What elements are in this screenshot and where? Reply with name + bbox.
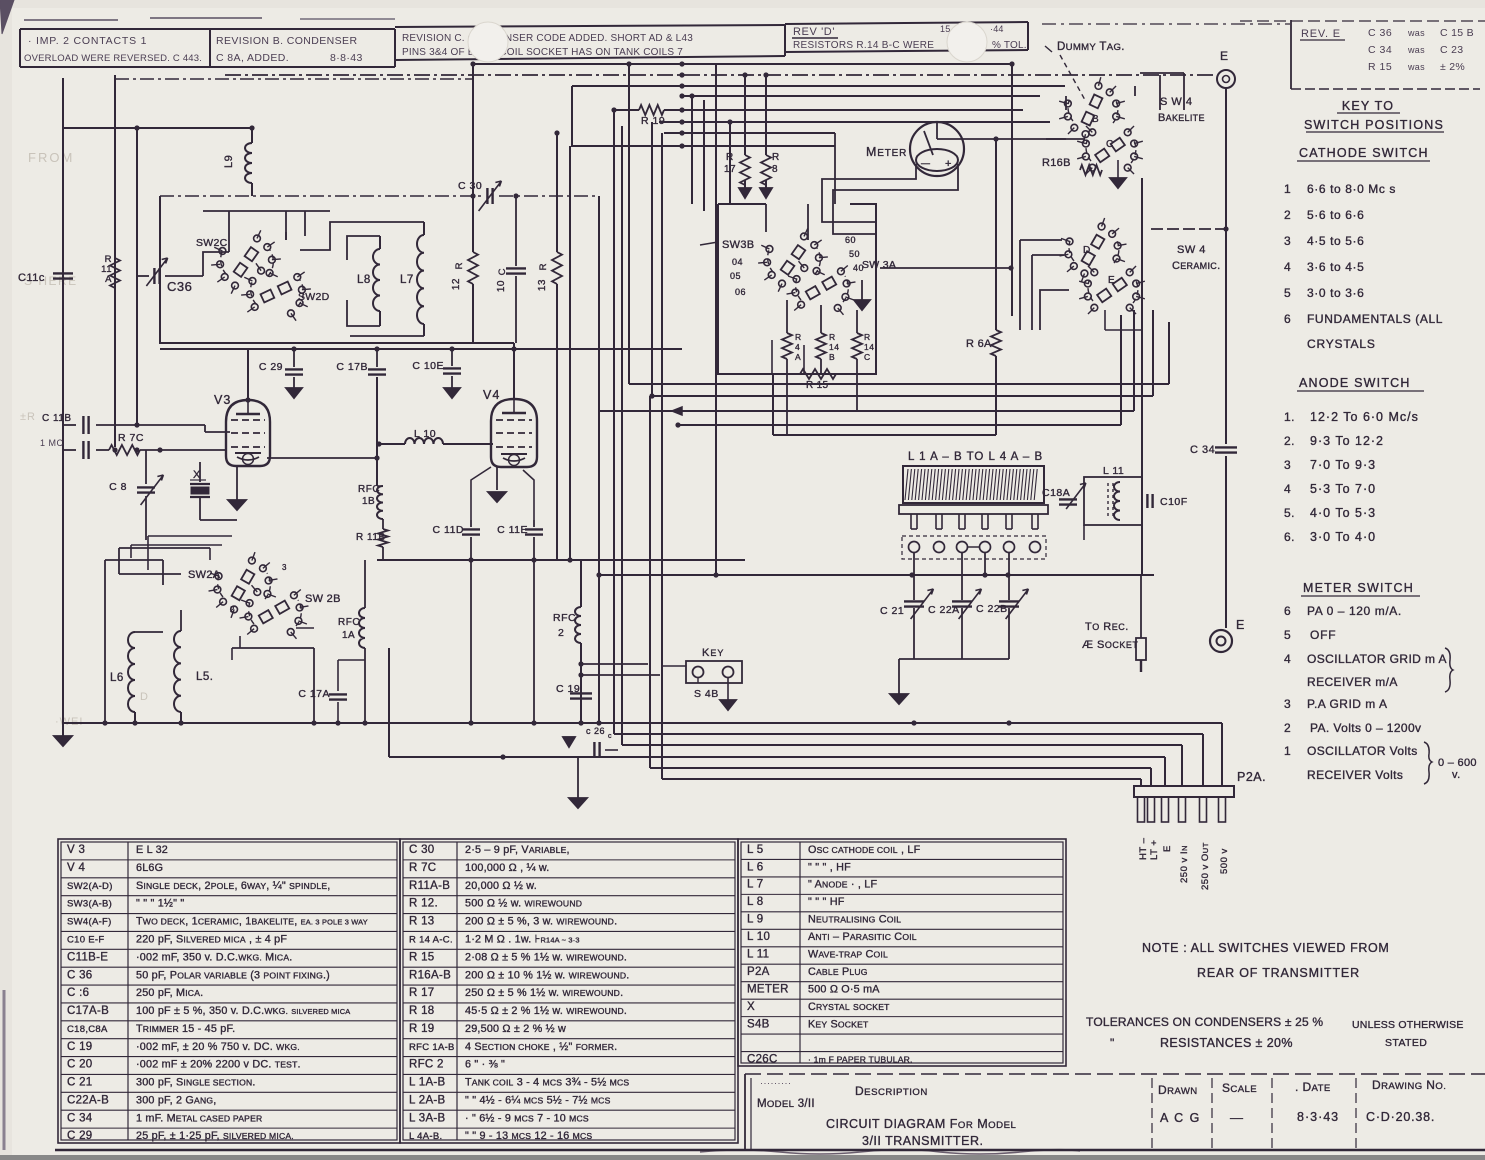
wire: SW4 lower taps xyxy=(1151,228,1226,230)
svg-text:NOTE : ALL SWITCHES VIEWED: NOTE : ALL SWITCHES VIEWED FROM xyxy=(1142,941,1389,955)
svg-text:3/II TRANSMITTER.: 3/II TRANSMITTER. xyxy=(862,1134,983,1148)
SW2A/B nest wires xyxy=(105,548,210,723)
svg-text:—: — xyxy=(921,158,931,168)
wire: vertical x115 xyxy=(114,75,116,447)
capacitor C18A xyxy=(1059,498,1077,500)
svg-text:D: D xyxy=(1083,245,1091,256)
svg-text:100 pF ± 5 %, 350 v. D.C.WKG.: 100 pF ± 5 %, 350 v. D.C.WKG. SILVERED M… xyxy=(136,1005,350,1017)
svg-text:UNLESS OTHERWISE: UNLESS OTHERWISE xyxy=(1352,1019,1464,1031)
top edge dashes xyxy=(24,19,118,21)
wire: middle bundle y384 xyxy=(629,383,1169,385)
svg-text:300 pF, SINGLE SECTION.: 300 pF, SINGLE SECTION. xyxy=(136,1077,256,1089)
svg-text:L 10: L 10 xyxy=(747,931,770,943)
svg-text:L9: L9 xyxy=(223,155,235,168)
svg-text:R: R xyxy=(864,332,871,342)
svg-text:BAKELITE: BAKELITE xyxy=(1158,112,1205,124)
svg-text:C 15 B: C 15 B xyxy=(1440,27,1474,39)
svg-text:REVISION B. CONDENSER: REVISION B. CONDENSER xyxy=(216,35,357,47)
wire: left vertical x63 with ground xyxy=(62,78,64,723)
wire: comb y779 xyxy=(662,778,1141,780)
capacitor C19 xyxy=(570,692,592,694)
svg-text:C 23: C 23 xyxy=(1440,44,1463,56)
svg-text:MODEL 3/II: MODEL 3/II xyxy=(757,1098,815,1110)
svg-text:DUMMY TAG.: DUMMY TAG. xyxy=(1057,41,1125,53)
svg-text:KEY: KEY xyxy=(702,647,724,659)
svg-text:" " ": " " " , HF xyxy=(808,861,851,873)
svg-text:29,500 Ω ± 2 % ½ w: 29,500 Ω ± 2 % ½ w xyxy=(465,1023,566,1035)
svg-text:OSCILLATOR Volts: OSCILLATOR Volts xyxy=(1307,744,1418,758)
svg-text:X: X xyxy=(747,1001,755,1013)
svg-text:R: R xyxy=(454,262,465,269)
capacitor C8 variable xyxy=(145,450,147,484)
svg-text:1 MC: 1 MC xyxy=(40,438,64,448)
rev E box xyxy=(1290,20,1292,89)
svg-text:A: A xyxy=(795,352,801,362)
wire: meter to SW3 left xyxy=(822,164,916,222)
coil L7 xyxy=(417,235,424,324)
svg-text:± 2%: ± 2% xyxy=(1440,61,1465,73)
svg-text:4·5 to 5·6: 4·5 to 5·6 xyxy=(1307,234,1364,248)
svg-text:OSC CATHODE COIL , LF: OSC CATHODE COIL , LF xyxy=(808,844,921,856)
svg-text:SCALE: SCALE xyxy=(1222,1081,1257,1095)
resistor R6A xyxy=(995,139,997,330)
svg-text:SW 3A: SW 3A xyxy=(862,259,896,271)
svg-text:RFC: RFC xyxy=(358,484,380,495)
svg-text:6: 6 xyxy=(1284,604,1291,618)
variable capacitor C21 xyxy=(904,600,924,602)
svg-text:C18,C8A: C18,C8A xyxy=(67,1024,108,1035)
svg-text:was: was xyxy=(1407,28,1425,38)
svg-text:R 19: R 19 xyxy=(641,115,665,127)
svg-text:R: R xyxy=(772,152,780,163)
svg-text:4: 4 xyxy=(1284,260,1291,274)
svg-text:· IMP. 2 CONTACTS 1: · IMP. 2 CONTACTS 1 xyxy=(28,35,147,47)
wire: meter to SW3 right xyxy=(833,164,958,234)
svg-text:REV. E: REV. E xyxy=(1301,28,1341,40)
svg-text:R 12.: R 12. xyxy=(409,898,438,910)
svg-text:5.: 5. xyxy=(1284,506,1295,520)
svg-text:R16B: R16B xyxy=(1042,157,1071,169)
svg-text:R16A-B: R16A-B xyxy=(409,969,451,981)
svg-text:R 19: R 19 xyxy=(409,1023,435,1035)
svg-text:REVISION C. CONDENSER CODE AD: REVISION C. CONDENSER CODE ADDED. SHORT … xyxy=(402,33,693,44)
svg-text:5: 5 xyxy=(1284,286,1291,300)
svg-text:1 mF. METAL CASED PAPER: 1 mF. METAL CASED PAPER xyxy=(136,1112,262,1124)
svg-text:CABLE PLUG: CABLE PLUG xyxy=(808,966,868,978)
svg-text:L 1A-B: L 1A-B xyxy=(409,1077,446,1089)
svg-text:R 11B: R 11B xyxy=(356,532,386,543)
svg-text:C 19: C 19 xyxy=(556,683,580,695)
svg-text:C 11B: C 11B xyxy=(42,413,72,424)
svg-text:ANODE SWITCH: ANODE SWITCH xyxy=(1299,376,1411,390)
wire: comb y757 xyxy=(389,756,1165,758)
svg-text:C 21: C 21 xyxy=(880,605,904,617)
svg-text:C 30: C 30 xyxy=(409,844,435,856)
svg-text:V4: V4 xyxy=(483,388,500,402)
capacitor C10 xyxy=(515,196,517,266)
wire: key to cage xyxy=(662,665,686,667)
svg-text:" " ": " " " 1½" " xyxy=(136,898,184,910)
svg-text:1B: 1B xyxy=(362,496,375,507)
wire: V4 anode top xyxy=(513,343,515,399)
svg-text:—: — xyxy=(1230,1110,1244,1125)
svg-text:6: 6 xyxy=(1284,312,1291,326)
svg-text:RFC: RFC xyxy=(338,617,360,628)
svg-text:7·0 To 9·3: 7·0 To 9·3 xyxy=(1310,458,1376,472)
svg-text:25 pF, ± 1·25 pF, SILVERED MIC: 25 pF, ± 1·25 pF, SILVERED MICA. xyxy=(136,1130,294,1142)
svg-text:·002 mF, 350 v. D.C.WKG. MICA: ·002 mF, 350 v. D.C.WKG. MICA. xyxy=(136,951,292,963)
svg-text:E: E xyxy=(1236,618,1245,632)
svg-text:C: C xyxy=(1106,139,1114,150)
svg-text:6.: 6. xyxy=(1284,530,1295,544)
svg-text:SW4(A-F): SW4(A-F) xyxy=(67,917,112,928)
svg-text:±R: ±R xyxy=(20,411,36,423)
svg-text:C 21: C 21 xyxy=(67,1077,93,1089)
svg-text:1A: 1A xyxy=(342,630,355,641)
svg-text:C :6: C :6 xyxy=(67,987,89,999)
svg-text:05: 05 xyxy=(730,271,741,281)
svg-text:C: C xyxy=(497,268,508,275)
svg-text:METER: METER xyxy=(747,984,789,996)
ground arrow below C26C xyxy=(577,757,579,798)
svg-text:B: B xyxy=(829,352,835,362)
capacitor C11C xyxy=(53,272,73,274)
svg-text:2: 2 xyxy=(1284,721,1291,735)
rotary switch SW4 lower (ceramic) xyxy=(1114,242,1121,249)
svg-text:0 – 600: 0 – 600 xyxy=(1438,757,1477,769)
vertical cage center xyxy=(571,86,573,146)
svg-text:SWITCH POSITIONS: SWITCH POSITIONS xyxy=(1304,118,1444,132)
svg-text:HT –: HT – xyxy=(1138,837,1149,860)
svg-text:C 8A, ADDED.: C 8A, ADDED. xyxy=(216,52,289,64)
svg-text:C 29: C 29 xyxy=(67,1130,93,1142)
wire: SW3A to SW4 y268 xyxy=(880,267,1011,269)
SW3 box xyxy=(718,204,876,374)
svg-text:3·0 to 3·6: 3·0 to 3·6 xyxy=(1307,286,1364,300)
ground under V3 cathode xyxy=(236,466,238,500)
svg-text:·44: ·44 xyxy=(990,24,1004,34)
svg-text:8·8·43: 8·8·43 xyxy=(330,52,363,64)
svg-text:CRYSTALS: CRYSTALS xyxy=(1307,337,1376,351)
wire: ground bus y723 xyxy=(63,722,1222,724)
wire: x1012 vertical xyxy=(1011,64,1013,316)
svg-text:DESCRIPTION: DESCRIPTION xyxy=(855,1084,928,1098)
svg-text:SW3(A-B): SW3(A-B) xyxy=(67,899,112,910)
svg-text:B: B xyxy=(1092,114,1099,125)
svg-text:C10 E-F: C10 E-F xyxy=(67,934,104,945)
svg-text:C·D·20.38.: C·D·20.38. xyxy=(1366,1110,1435,1124)
svg-text:REV 'D': REV 'D' xyxy=(793,26,835,38)
svg-text:REAR OF TRANSMITTER: REAR OF TRANSMITTER xyxy=(1197,966,1360,980)
svg-text:c 26: c 26 xyxy=(586,726,605,736)
svg-text:TO REC.: TO REC. xyxy=(1085,621,1129,633)
ground arrow left bottom xyxy=(62,723,64,736)
svg-text:250 Ω ± 5 % 1½ w. WIREWOUND.: 250 Ω ± 5 % 1½ w. WIREWOUND. xyxy=(465,987,623,999)
svg-text:R 6A: R 6A xyxy=(966,338,992,350)
meter M1 xyxy=(910,122,964,176)
svg-text:R: R xyxy=(795,332,802,342)
svg-text:Æ SOCKET: Æ SOCKET xyxy=(1082,639,1138,651)
svg-text:L 6: L 6 xyxy=(747,861,763,873)
capacitor C29 with ground xyxy=(293,349,295,367)
svg-text:L 11: L 11 xyxy=(747,949,769,961)
svg-text:KEY TO: KEY TO xyxy=(1342,99,1394,113)
svg-text:C 8: C 8 xyxy=(109,481,127,493)
svg-text:DRAWN: DRAWN xyxy=(1158,1083,1198,1097)
capacitor C11B xyxy=(63,424,76,426)
svg-text:L 1 A – B TO L 4 A – B: L 1 A – B TO L 4 A – B xyxy=(908,451,1043,463)
svg-text:3·0 To 4·0: 3·0 To 4·0 xyxy=(1310,530,1376,544)
svg-text:L 11: L 11 xyxy=(1103,465,1124,477)
svg-text:C11B-E: C11B-E xyxy=(67,951,108,963)
svg-text:RECEIVER Volts: RECEIVER Volts xyxy=(1307,768,1403,782)
svg-text:L 7: L 7 xyxy=(747,879,763,891)
svg-text:C17A-B: C17A-B xyxy=(67,1005,109,1017)
svg-text:LT +: LT + xyxy=(1149,840,1160,860)
wire: vertical x137 xyxy=(136,128,138,424)
svg-text:STATED: STATED xyxy=(1385,1037,1427,1049)
capacitor C7C lower xyxy=(63,449,76,451)
svg-text:NEUTRALISING COIL: NEUTRALISING COIL xyxy=(808,914,901,926)
svg-text:L8: L8 xyxy=(357,274,371,286)
rotary switch SW4 upper (bakelite) xyxy=(1113,100,1120,107)
svg-text:" ANODE · , LF: " ANODE · , LF xyxy=(808,879,877,891)
wire: y435 under SW3 xyxy=(773,434,996,436)
svg-text:SW2A: SW2A xyxy=(188,569,221,581)
resistor R14A xyxy=(786,300,788,333)
rotary switch SW3A/B xyxy=(816,254,823,261)
svg-text:CATHODE SWITCH: CATHODE SWITCH xyxy=(1299,146,1429,160)
resistor R11B xyxy=(382,519,384,529)
coil L8 xyxy=(373,249,380,311)
svg-text:A: A xyxy=(105,274,112,285)
svg-text:9·3 To 12·2: 9·3 To 12·2 xyxy=(1310,434,1384,448)
wire: middle bundle y411 xyxy=(598,410,1134,412)
svg-text:RFC 2: RFC 2 xyxy=(409,1059,444,1071)
svg-text:· " 6½ - 9 MCS 7 -: · " 6½ - 9 MCS 7 - 10 MCS xyxy=(465,1112,589,1124)
crystal socket holes xyxy=(902,536,1046,559)
svg-text:E: E xyxy=(1108,275,1115,286)
wire: stubs from RFC2 xyxy=(581,663,648,665)
svg-text:·········: ········· xyxy=(760,1078,791,1088)
svg-text:250 v IN: 250 v IN xyxy=(1179,845,1190,883)
svg-text:RESISTANCES ± 20%: RESISTANCES ± 20% xyxy=(1160,1036,1293,1050)
svg-text:45·5 Ω ± 2 % 1½ w. WIREWOUND.: 45·5 Ω ± 2 % 1½ w. WIREWOUND. xyxy=(465,1005,627,1017)
svg-text:R 15: R 15 xyxy=(806,380,828,391)
svg-text:100,000 Ω , ¼ w.: 100,000 Ω , ¼ w. xyxy=(465,862,550,874)
svg-text:L 5: L 5 xyxy=(747,844,763,856)
svg-text:FROM: FROM xyxy=(28,150,74,165)
svg-text:250 v OUT: 250 v OUT xyxy=(1200,842,1211,890)
svg-text:SW2C: SW2C xyxy=(196,237,228,249)
svg-text:2.: 2. xyxy=(1284,434,1295,448)
wires SW2 to coils nest xyxy=(300,222,424,336)
wire: socket to caps xyxy=(913,552,915,600)
svg-text:5: 5 xyxy=(1284,628,1291,642)
svg-text:C 34: C 34 xyxy=(1368,44,1392,56)
svg-text:1.: 1. xyxy=(1284,410,1295,424)
svg-text:500 v: 500 v xyxy=(1219,848,1230,874)
svg-text:12: 12 xyxy=(451,278,462,290)
coil RFC1B xyxy=(376,377,378,486)
svg-text:10: 10 xyxy=(496,280,507,292)
capacitor C30 xyxy=(486,188,488,204)
svg-text:WAVE-TRAP COIL: WAVE-TRAP COIL xyxy=(808,949,888,961)
svg-text:1: 1 xyxy=(1284,744,1291,758)
wire: bus y122 xyxy=(659,121,1050,123)
svg-text:" " 9 - 13 MCS 12 -: " " 9 - 13 MCS 12 - 16 MCS xyxy=(465,1130,592,1142)
svg-text:2·5 – 9 pF, VARIABLE,: 2·5 – 9 pF, VARIABLE, xyxy=(465,844,570,856)
svg-text:6·6 to 8·0 Mc s: 6·6 to 8·0 Mc s xyxy=(1307,182,1396,196)
rotary switch SW2C/D xyxy=(269,256,276,263)
svg-text:R: R xyxy=(829,332,836,342)
svg-text:" " ": " " " HF xyxy=(808,896,845,908)
coil RFC1A xyxy=(364,560,366,608)
ground arrow in SW3 xyxy=(861,280,863,300)
coil L10 xyxy=(379,443,405,445)
svg-text:8·3·43: 8·3·43 xyxy=(1297,1110,1339,1124)
svg-text:SW2D: SW2D xyxy=(298,291,330,303)
svg-text:1: 1 xyxy=(1284,182,1291,196)
wire: V3 anode top xyxy=(247,349,249,400)
svg-text:was: was xyxy=(1407,62,1425,72)
page bottom smudge xyxy=(700,1150,1080,1155)
svg-text:FUNDAMENTALS (ALL: FUNDAMENTALS (ALL xyxy=(1307,312,1443,326)
svg-text:200 Ω ± 10 % 1½ w. WIREWOUND.: 200 Ω ± 10 % 1½ w. WIREWOUND. xyxy=(465,969,630,981)
svg-text:RFC: RFC xyxy=(553,612,576,624)
svg-text:CERAMIC.: CERAMIC. xyxy=(1172,260,1220,272)
svg-text:C 36: C 36 xyxy=(1368,27,1392,39)
svg-text:L6: L6 xyxy=(110,672,124,684)
svg-text:3: 3 xyxy=(1284,234,1291,248)
svg-text:5·6 to 6·6: 5·6 to 6·6 xyxy=(1307,208,1364,222)
svg-text:CRYSTAL SOCKET: CRYSTAL SOCKET xyxy=(808,1001,890,1013)
wire: V3 right side to C17B xyxy=(267,457,377,459)
variable capacitor C22A xyxy=(952,600,972,602)
svg-text:was: was xyxy=(1407,45,1425,55)
svg-text:C 17A: C 17A xyxy=(298,688,330,700)
svg-text:1·2 M Ω . 1w. ⊦R14A ~ 3·3: 1·2 M Ω . 1w. ⊦R14A ~ 3·3 xyxy=(465,933,580,945)
svg-text:C 19: C 19 xyxy=(67,1041,93,1053)
svg-text:6L6G: 6L6G xyxy=(136,862,163,874)
svg-text:TOLERANCES ON CONDENSERS ± 25: TOLERANCES ON CONDENSERS ± 25 % xyxy=(1086,1015,1323,1029)
svg-text:L 2A-B: L 2A-B xyxy=(409,1094,446,1106)
svg-text:C 34: C 34 xyxy=(67,1112,93,1124)
svg-text:P.A GRID m A: P.A GRID m A xyxy=(1307,697,1387,711)
punch hole left xyxy=(468,22,508,62)
svg-text:C36: C36 xyxy=(167,279,192,294)
junction dots top buses xyxy=(611,107,616,112)
svg-text:" " 4½ - 6¼ MCS 5½ -: " " 4½ - 6¼ MCS 5½ - 7½ MCS xyxy=(465,1094,611,1106)
wire: bus y96 xyxy=(682,95,1040,97)
coil L5 xyxy=(174,631,181,712)
svg-text:OVERLOAD WERE REVERSED. C 443.: OVERLOAD WERE REVERSED. C 443. xyxy=(24,53,202,64)
svg-text:6 " ·: 6 " · ⅜ " xyxy=(465,1059,505,1071)
svg-text:13: 13 xyxy=(537,279,548,291)
svg-text:S 4B: S 4B xyxy=(694,688,719,700)
svg-text:12·2 To 6·0 Mc/s: 12·2 To 6·0 Mc/s xyxy=(1310,410,1419,424)
svg-text:C11c: C11c xyxy=(18,272,45,284)
svg-text:+: + xyxy=(945,158,952,170)
capacitor C34 xyxy=(1215,446,1237,448)
svg-text:R 15: R 15 xyxy=(409,951,435,963)
wire: middle bundle y396 xyxy=(650,395,1153,397)
svg-text:METER SWITCH: METER SWITCH xyxy=(1303,581,1414,595)
key jack S4B xyxy=(686,661,742,683)
wire: meter bus y139 xyxy=(937,138,1085,140)
capacitor C36 xyxy=(153,268,155,284)
svg-text:RECEIVER m/A: RECEIVER m/A xyxy=(1307,675,1398,689)
svg-text:P2A.: P2A. xyxy=(1237,770,1266,784)
svg-text:4: 4 xyxy=(1284,652,1291,666)
resistor R11A xyxy=(110,258,120,288)
punch hole right xyxy=(947,22,987,62)
wire: R19 bus y110 xyxy=(614,109,639,111)
svg-text:R 18: R 18 xyxy=(409,1005,435,1017)
revision strip border xyxy=(20,28,395,30)
crystal X xyxy=(199,462,201,482)
wire: middle bundle y425 xyxy=(678,424,1121,426)
wire: comb y745 xyxy=(622,744,1182,746)
wire: SW4 upper taps xyxy=(1046,96,1066,139)
svg-text:4: 4 xyxy=(795,342,800,352)
svg-text:06: 06 xyxy=(735,287,746,297)
svg-text:": " xyxy=(1110,1036,1115,1050)
svg-text:04: 04 xyxy=(732,257,743,267)
wire: y343 bottom of SW2CD box xyxy=(160,342,473,344)
svg-text:SINGLE DECK, 2POLE, 6WAY, ¼" S: SINGLE DECK, 2POLE, 6WAY, ¼" SPINDLE, xyxy=(136,880,331,892)
svg-text:% TOL.: % TOL. xyxy=(992,40,1027,51)
svg-text:SW3B: SW3B xyxy=(722,239,754,251)
svg-text:C 11E: C 11E xyxy=(497,524,528,536)
svg-text:L 3A-B: L 3A-B xyxy=(409,1112,446,1124)
svg-text:C 30: C 30 xyxy=(458,180,482,192)
svg-text:C22A-B: C22A-B xyxy=(67,1094,109,1106)
svg-text:P2A: P2A xyxy=(747,966,770,978)
svg-text:2: 2 xyxy=(558,627,564,639)
rotary switch SW2A/B xyxy=(265,577,272,584)
svg-text:R: R xyxy=(538,263,549,270)
svg-text:14: 14 xyxy=(864,342,874,352)
wire: top HT bus y64 xyxy=(475,63,1012,65)
resistor R14B xyxy=(820,305,822,333)
svg-text:200 Ω ± 5 %, 3 w. WIREWOUND.: 200 Ω ± 5 %, 3 w. WIREWOUND. xyxy=(465,916,617,928)
resistor R19 xyxy=(639,105,664,115)
svg-text:A C G: A C G xyxy=(1160,1111,1201,1125)
svg-text:DRAWING NO.: DRAWING NO. xyxy=(1372,1078,1446,1092)
svg-text:3·6 to 4·5: 3·6 to 4·5 xyxy=(1307,260,1364,274)
coil L9 xyxy=(251,128,253,143)
svg-text:4: 4 xyxy=(1284,482,1291,496)
svg-text:5·3 To 7·0: 5·3 To 7·0 xyxy=(1310,482,1376,496)
svg-text:PA 0 – 120 m/A.: PA 0 – 120 m/A. xyxy=(1307,604,1402,618)
capacitor C11E xyxy=(533,520,535,527)
parts table group A xyxy=(58,839,400,1143)
svg-text:C 20: C 20 xyxy=(67,1059,93,1071)
svg-text:220 pF, SILVERED MICA , ± 4 pF: 220 pF, SILVERED MICA , ± 4 pF xyxy=(136,933,287,945)
parts table group B xyxy=(400,839,738,1143)
svg-text:ANTI – PARASITIC COIL: ANTI – PARASITIC COIL xyxy=(808,931,917,943)
svg-text:R 15: R 15 xyxy=(1368,61,1392,73)
wire: bus y86 xyxy=(572,85,1065,87)
svg-text:SW2(A-D): SW2(A-D) xyxy=(67,881,113,892)
svg-text:V3: V3 xyxy=(214,393,231,407)
wire: meter top x937 xyxy=(936,122,938,139)
svg-text:4 SECTION CHOKE , ½" FORMER.: 4 SECTION CHOKE , ½" FORMER. xyxy=(465,1041,617,1053)
left edge dark line xyxy=(3,990,6,1150)
top-left corner mark xyxy=(0,0,14,34)
svg-text:S4B: S4B xyxy=(747,1018,770,1030)
